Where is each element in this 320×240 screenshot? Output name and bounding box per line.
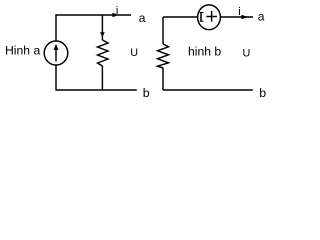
wire: left circuit top-left vertical lead — [55, 15, 57, 41]
resistor R2 zigzag — [158, 44, 169, 68]
voltage source E circle — [198, 5, 221, 30]
svg-text:U: U — [130, 47, 138, 59]
svg-text:U: U — [243, 47, 251, 59]
wire: right circuit top horizontal (right part) — [221, 16, 254, 18]
wire: left circuit source bottom lead — [55, 65, 57, 90]
wire: right circuit left vertical top lead — [162, 17, 164, 44]
voltage source E letter I (serif) — [200, 12, 204, 21]
svg-text:b: b — [259, 86, 266, 100]
svg-text:b: b — [143, 86, 150, 100]
svg-text:i: i — [238, 6, 240, 18]
svg-text:a: a — [139, 11, 146, 25]
voltage source E plus sign — [206, 16, 217, 18]
resistor R1 zigzag — [98, 40, 109, 66]
wire: right circuit bottom horizontal — [163, 89, 253, 91]
wire: right circuit top horizontal (left part) — [163, 16, 198, 18]
arrowhead: current source I1 (up) — [54, 44, 59, 50]
svg-text:i: i — [116, 5, 118, 17]
arrowhead: current i left circuit — [112, 13, 118, 18]
wire: right circuit left vertical bottom lead — [162, 68, 164, 90]
svg-text:Hinh a: Hinh a — [5, 44, 40, 58]
arrowhead: current i right circuit — [242, 15, 248, 20]
arrowhead: branch current into R1 (down) — [100, 32, 105, 37]
current source I1 circle — [44, 41, 68, 65]
wire: left circuit bottom horizontal — [55, 89, 136, 91]
wire: left circuit resistor top lead — [101, 15, 103, 40]
wire: left circuit resistor bottom lead — [101, 66, 103, 90]
svg-text:hinh b: hinh b — [188, 45, 221, 59]
wire: left circuit top horizontal — [55, 14, 131, 16]
current source I1 arrow shaft — [55, 49, 57, 62]
svg-text:a: a — [258, 10, 265, 24]
